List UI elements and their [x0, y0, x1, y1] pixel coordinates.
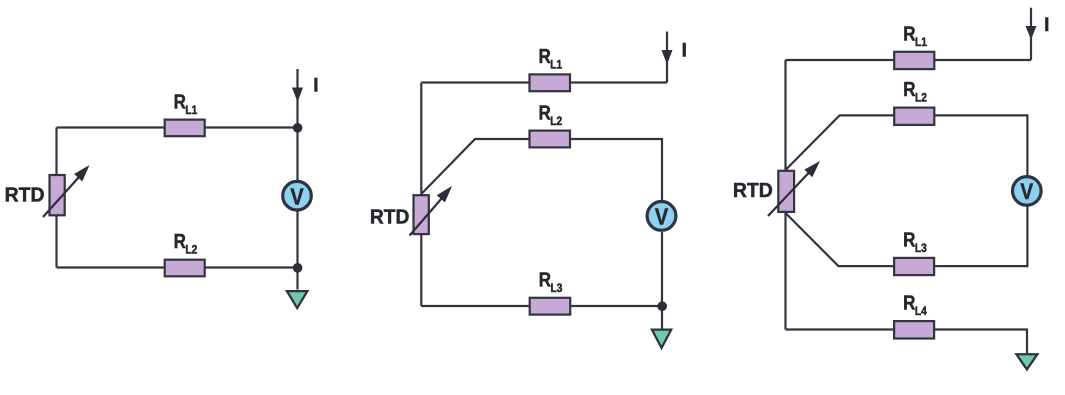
wire left vertical (2-wire)	[55, 128, 57, 268]
svg-text:R: R	[539, 45, 552, 68]
ground (2-wire)	[285, 290, 310, 310]
resistor RL1 (3-wire)	[530, 74, 571, 91]
svg-text:V: V	[655, 203, 669, 230]
label RL2 (2-wire)	[174, 230, 198, 257]
current arrow I (2-wire)	[292, 88, 303, 103]
label RL1 (3-wire)	[539, 45, 563, 72]
resistor RL4 (4-wire)	[894, 321, 934, 338]
svg-text:L1: L1	[550, 59, 562, 72]
wire top lead (2-wire)	[57, 126, 298, 128]
wire top force lead (3-wire)	[421, 81, 667, 83]
label RTD (2-wire)	[5, 184, 45, 206]
wire voltmeter to bottom junction and ground stem (3-wire)	[661, 232, 663, 329]
wire RL2 sense lead with diagonal (4-wire)	[786, 115, 1028, 175]
resistor RL1 (2-wire)	[165, 120, 205, 137]
label RL3 (3-wire)	[539, 268, 563, 295]
svg-text:R: R	[903, 228, 916, 251]
wire current/sense vertical (2-wire)	[296, 69, 298, 290]
voltmeter V (3-wire)	[647, 202, 676, 231]
resistor RL2 (3-wire)	[530, 131, 571, 148]
svg-text:L2: L2	[185, 244, 197, 257]
wire RL3 sense lead with diagonal (4-wire)	[786, 207, 1028, 267]
svg-text:L3: L3	[915, 242, 927, 255]
current arrow I (3-wire)	[662, 50, 673, 65]
wire current arrow stem (4-wire)	[1030, 8, 1032, 60]
resistor RL1 (4-wire)	[894, 52, 934, 69]
wire bottom lead (2-wire)	[57, 266, 298, 268]
svg-text:R: R	[539, 101, 552, 124]
svg-text:L1: L1	[185, 104, 197, 117]
junction dot bottom (2-wire)	[293, 263, 303, 273]
wire top force lead (4-wire)	[786, 59, 1032, 61]
svg-text:L1: L1	[915, 36, 927, 49]
label RL1 (2-wire)	[174, 90, 198, 117]
wire bottom return lead (4-wire)	[786, 330, 1028, 354]
resistor RL3 (4-wire)	[894, 258, 934, 275]
label RL2 (4-wire)	[903, 78, 927, 105]
wire left vertical (4-wire)	[784, 60, 786, 330]
wire left vertical (3-wire)	[420, 83, 422, 307]
RTD variable arrow (3-wire)	[410, 186, 453, 236]
svg-text:R: R	[174, 230, 187, 253]
junction dot top (2-wire)	[293, 123, 303, 133]
ground (3-wire)	[650, 329, 673, 351]
resistor RL2 (2-wire)	[165, 260, 205, 277]
svg-text:R: R	[903, 22, 916, 45]
ground (4-wire)	[1014, 353, 1039, 371]
svg-text:RTD: RTD	[733, 180, 773, 202]
svg-text:R: R	[903, 78, 916, 101]
svg-text:L2: L2	[915, 92, 927, 105]
wire current arrow stem (3-wire)	[666, 32, 668, 83]
svg-text:V: V	[1020, 180, 1033, 205]
RTD variable arrow (2-wire)	[43, 165, 90, 217]
svg-text:R: R	[903, 291, 916, 314]
label RTD (3-wire)	[370, 206, 409, 228]
RTD body (4-wire)	[778, 171, 794, 212]
junction dot bottom (3-wire)	[657, 301, 667, 311]
svg-text:V: V	[290, 183, 304, 210]
svg-text:R: R	[174, 90, 187, 113]
label RTD (4-wire)	[733, 180, 773, 202]
wire RL2 sense lead with diagonal (3-wire)	[421, 139, 662, 200]
resistor RL3 (3-wire)	[530, 298, 571, 315]
svg-text:RTD: RTD	[5, 184, 45, 206]
svg-text:L4: L4	[915, 305, 928, 318]
label RL3 (4-wire)	[903, 228, 927, 255]
voltmeter V (2-wire)	[283, 181, 312, 210]
wire bottom lead (3-wire)	[421, 305, 662, 307]
svg-text:L3: L3	[551, 282, 563, 295]
resistor RL2 (4-wire)	[894, 108, 934, 125]
label RL2 (3-wire)	[539, 101, 563, 128]
svg-text:I: I	[313, 76, 318, 97]
RTD variable arrow (4-wire)	[768, 161, 820, 216]
label RL4 (4-wire)	[903, 291, 927, 318]
svg-text:L2: L2	[550, 115, 562, 128]
current arrow I (4-wire)	[1026, 26, 1037, 40]
svg-text:I: I	[1044, 15, 1049, 36]
RTD body (3-wire)	[414, 195, 429, 234]
svg-text:RTD: RTD	[370, 206, 409, 228]
svg-text:R: R	[539, 268, 552, 291]
RTD body (2-wire)	[50, 175, 65, 215]
label RL1 (4-wire)	[903, 22, 927, 49]
voltmeter V (4-wire)	[1013, 177, 1042, 206]
svg-text:I: I	[682, 41, 687, 62]
